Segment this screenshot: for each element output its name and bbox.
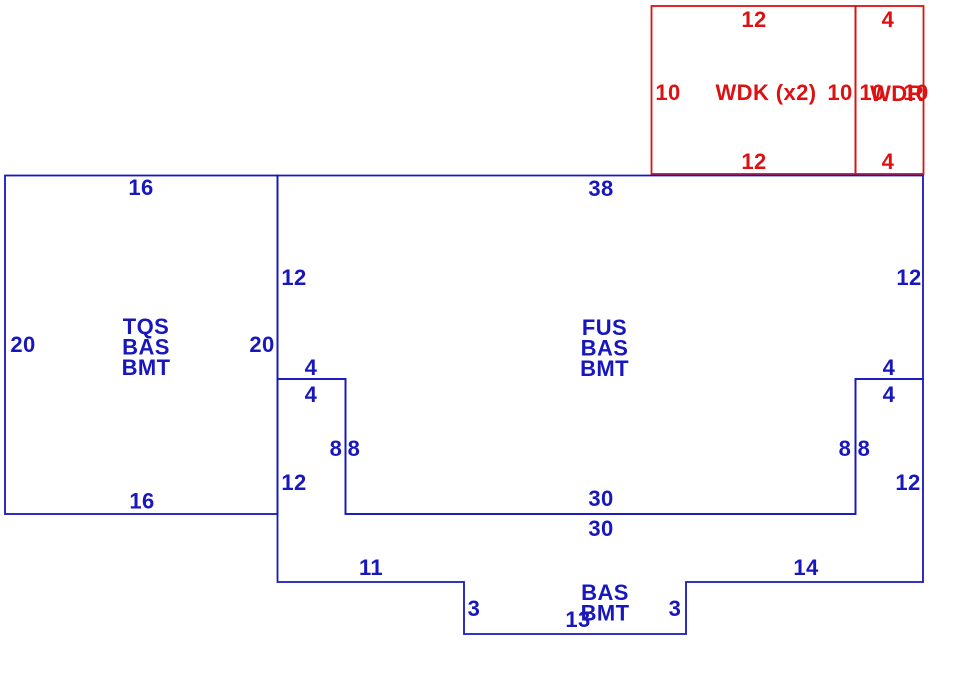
svg-text:38: 38 [588,176,613,201]
svg-text:12: 12 [896,265,921,290]
svg-text:3: 3 [669,596,682,621]
svg-text:BMT: BMT [580,356,629,381]
svg-text:13: 13 [565,607,590,632]
svg-text:4: 4 [882,149,895,174]
svg-text:20: 20 [10,332,35,357]
svg-text:12: 12 [741,7,766,32]
svg-text:8: 8 [858,436,871,461]
svg-text:11: 11 [359,555,383,580]
svg-text:20: 20 [249,332,274,357]
svg-text:16: 16 [128,175,153,200]
svg-text:12: 12 [741,149,766,174]
svg-text:8: 8 [348,436,361,461]
svg-text:4: 4 [305,382,318,407]
svg-text:14: 14 [793,555,819,580]
svg-text:4: 4 [883,355,896,380]
svg-text:BMT: BMT [122,355,171,380]
deck WDK (x2) outline [652,6,856,174]
svg-text:WDK (x2): WDK (x2) [716,80,817,105]
room BAS BMT outline [278,379,924,634]
svg-text:12: 12 [895,470,920,495]
svg-text:30: 30 [588,486,613,511]
svg-text:12: 12 [281,265,306,290]
svg-text:4: 4 [305,355,318,380]
room TQS BAS BMT outline [5,176,278,515]
svg-text:4: 4 [882,7,895,32]
svg-text:16: 16 [129,489,154,514]
svg-text:4: 4 [883,382,896,407]
svg-text:WDR: WDR [870,81,924,106]
svg-text:3: 3 [468,596,481,621]
svg-text:8: 8 [330,436,343,461]
svg-text:30: 30 [588,516,613,541]
room FUS BAS BMT outline [278,176,924,515]
svg-text:12: 12 [281,470,306,495]
svg-text:8: 8 [839,436,852,461]
deck WDR outline [856,6,924,174]
svg-text:10: 10 [655,80,680,105]
svg-text:10: 10 [827,80,852,105]
